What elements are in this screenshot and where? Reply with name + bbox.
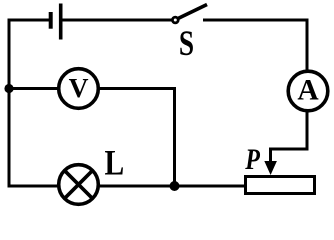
wire bottom horizontal — [9, 185, 244, 188]
wire ammeter to rheostat slider horizontal — [271, 148, 309, 151]
ammeter A1 circle — [288, 71, 328, 111]
battery short plate (negative) — [49, 12, 53, 29]
rheostat slider arrowhead — [264, 161, 277, 175]
rheostat slider stem — [269, 148, 272, 165]
junction node left (voltmeter tap) — [4, 84, 13, 93]
svg-text:S: S — [179, 23, 194, 62]
wire top-left: battery to left corner — [8, 19, 50, 22]
svg-text:L: L — [105, 144, 125, 183]
battery long plate (positive) — [59, 4, 63, 40]
svg-text:A: A — [297, 75, 319, 107]
wire left side vertical — [8, 19, 11, 188]
wire switch to top-right corner — [203, 19, 309, 22]
wire middle vertical — [173, 87, 176, 186]
lamp cross line 1 — [65, 171, 93, 199]
wire right side vertical through ammeter — [306, 19, 309, 150]
svg-text:P: P — [244, 142, 260, 175]
rheostat body R — [246, 177, 315, 194]
voltmeter V1 circle — [59, 69, 99, 109]
lamp cross line 2 — [65, 171, 93, 199]
wire voltmeter branch horizontal — [9, 87, 175, 90]
lamp L circle — [59, 165, 99, 205]
wire battery to switch — [62, 19, 172, 22]
switch S pivot — [172, 17, 178, 23]
svg-text:V: V — [69, 72, 89, 103]
junction node bottom (middle wire tap) — [170, 181, 180, 191]
switch S lever — [179, 5, 208, 19]
